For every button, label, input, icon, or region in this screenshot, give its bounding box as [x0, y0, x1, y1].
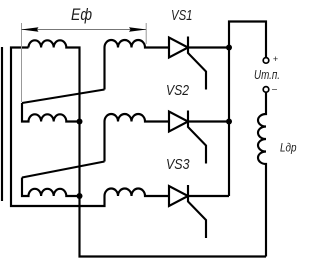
svg-text:Еф: Еф	[71, 6, 92, 24]
svg-text:VS1: VS1	[171, 8, 193, 24]
svg-text:+: +	[273, 54, 278, 64]
svg-text:VS3: VS3	[166, 157, 190, 173]
svg-text:Uт.п.: Uт.п.	[254, 67, 280, 82]
svg-text:VS2: VS2	[166, 83, 189, 99]
svg-text:Lдр: Lдр	[280, 141, 297, 155]
svg-text:–: –	[271, 84, 278, 94]
